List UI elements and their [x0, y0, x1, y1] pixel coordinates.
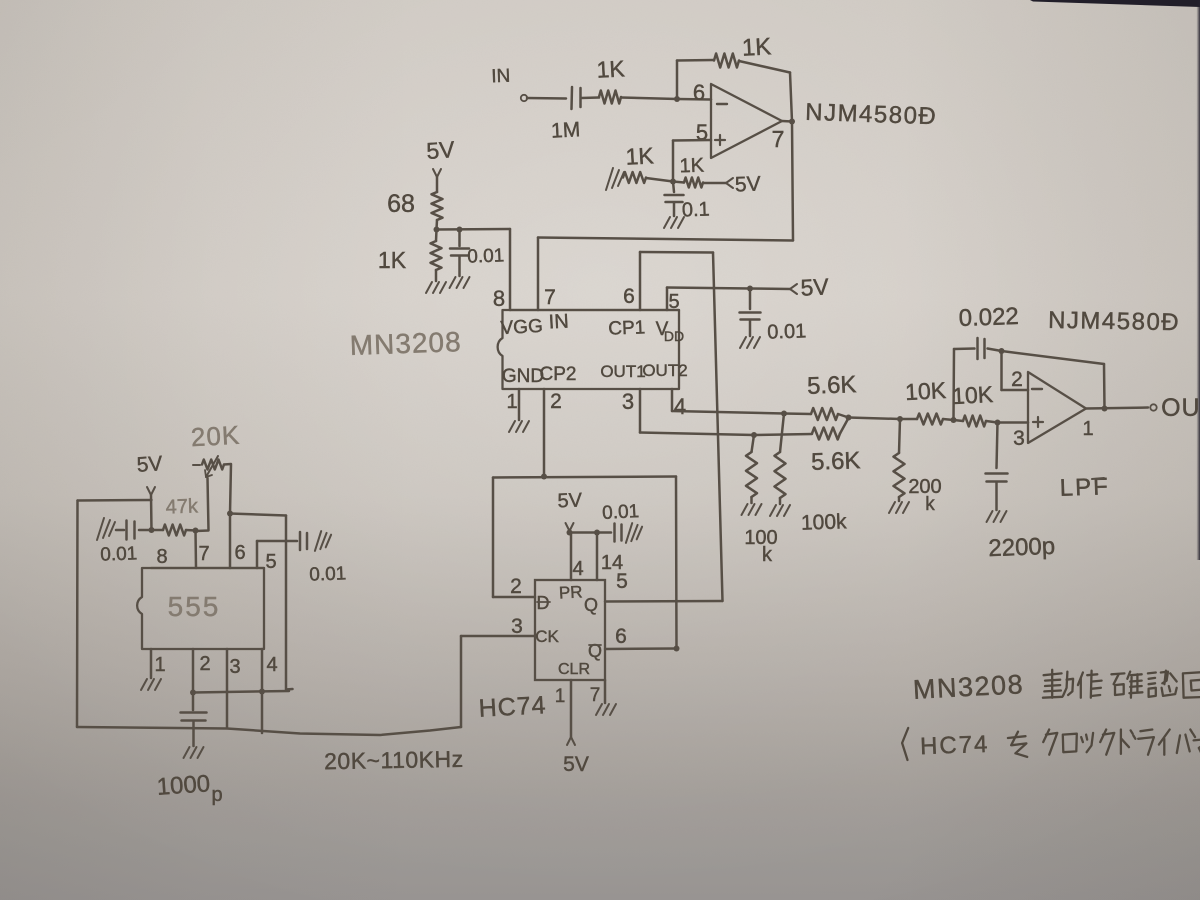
- svg-text:1000: 1000: [156, 770, 211, 801]
- label C4 0.01: [767, 320, 807, 343]
- overbar on F of LPF: [1092, 478, 1104, 479]
- wire CK input: [461, 635, 535, 638]
- svg-text:5: 5: [265, 551, 276, 573]
- wire feedback top right: [739, 61, 790, 73]
- svg-text:10K: 10K: [904, 377, 947, 405]
- U2 pin name OUT2: [642, 361, 687, 380]
- label C3 0.01: [467, 245, 505, 267]
- svg-text:4: 4: [266, 654, 277, 676]
- svg-text:4: 4: [572, 558, 583, 580]
- ground under C3: [450, 277, 470, 288]
- arrow 5V supply U2: [790, 284, 797, 294]
- svg-text:OUT1: OUT1: [600, 362, 645, 381]
- resistor R14 47k: [163, 525, 186, 536]
- caption to: [1199, 731, 1200, 757]
- node VDD junction: [747, 286, 753, 292]
- node F junction: [951, 417, 957, 423]
- wire VR1 right down: [224, 464, 231, 514]
- op-amp U3 pin3 label: [1013, 427, 1025, 450]
- U5 pin number 5: [265, 551, 276, 573]
- label R9 100 k: [744, 527, 777, 566]
- hatch after C7: [626, 523, 642, 543]
- node OUT2 junction: [781, 411, 787, 417]
- svg-text:NJM4580Đ: NJM4580Đ: [1048, 307, 1180, 336]
- wire pin2 into op-amp: [1002, 389, 1029, 392]
- capacitor C5 0.022: [978, 338, 985, 359]
- svg-text:1K: 1K: [596, 55, 626, 82]
- label C8 0.01: [100, 543, 138, 565]
- label C10 1000p: [156, 770, 223, 806]
- arrow 5V supply U1: [726, 178, 733, 188]
- svg-text:0.01: 0.01: [100, 543, 138, 565]
- wire R8 to node D: [840, 418, 849, 434]
- svg-text:5V: 5V: [563, 753, 589, 776]
- wire node G down to C6: [997, 423, 998, 469]
- U4 pin name D with bar: [537, 593, 551, 613]
- wire U4 pin1 CLR down: [570, 680, 573, 737]
- svg-text:7: 7: [590, 685, 601, 706]
- resistor R8 5.6K lower: [812, 428, 840, 440]
- U4 pin number 14: [601, 552, 623, 574]
- svg-text:2: 2: [510, 575, 522, 598]
- label R12 10K: [951, 381, 994, 409]
- U2 pin name OUT1: [600, 362, 645, 381]
- label 5V at 555: [136, 452, 163, 477]
- wire node VR1 right: [230, 514, 286, 516]
- svg-text:7: 7: [544, 286, 556, 309]
- ground U2 pin1: [509, 421, 529, 432]
- wire feedback down to output: [1103, 364, 1106, 409]
- U4 pin number 7: [590, 685, 601, 706]
- svg-text:8: 8: [156, 546, 167, 568]
- ground under C6: [987, 511, 1007, 522]
- node pin4 junction: [259, 689, 265, 695]
- svg-text:1: 1: [555, 686, 566, 707]
- U4 pin name PR: [558, 582, 583, 602]
- svg-text:CK: CK: [535, 627, 559, 646]
- node pin2 junction: [190, 690, 196, 696]
- svg-text:HC74: HC74: [920, 731, 990, 760]
- svg-text:1: 1: [154, 654, 165, 676]
- svg-text:7: 7: [772, 126, 785, 152]
- potentiometer VR1 20K: [193, 460, 224, 470]
- resistor R7 5.6K upper: [811, 408, 838, 420]
- wire U4 pin14 down: [596, 533, 599, 581]
- wire CP1 top: [640, 251, 713, 254]
- label LPF: [1059, 473, 1110, 502]
- wire U5 pin4 down: [261, 649, 264, 733]
- wire VDD to C4: [749, 289, 752, 310]
- svg-text:3: 3: [511, 615, 523, 638]
- ground under R9: [742, 504, 762, 515]
- node CP2 junction: [541, 474, 547, 480]
- svg-text:6: 6: [693, 80, 705, 105]
- ground U5 pin1: [141, 679, 161, 690]
- label R14 47k: [165, 495, 199, 518]
- IC U4 HC74 body: [535, 580, 605, 680]
- resistor R6 1K: [431, 241, 442, 270]
- svg-text:k: k: [925, 494, 935, 515]
- U2 pin number 6: [623, 285, 635, 308]
- label C9 0.01: [309, 563, 347, 585]
- caption kanji saku: [1078, 671, 1102, 698]
- caption katakana ba: [1177, 730, 1195, 754]
- svg-text:CP2: CP2: [540, 364, 577, 385]
- wire U5 pin3 down: [226, 649, 229, 728]
- U4 pin name CLR: [558, 661, 590, 678]
- U5 pin number 3: [229, 656, 240, 678]
- svg-text:MN3208: MN3208: [349, 326, 462, 361]
- wire OUT1 to R8: [754, 434, 812, 435]
- U4 pin number 4: [572, 558, 583, 580]
- wire U2 pin4 OUT2 down: [671, 389, 674, 411]
- wire R5 to node C: [435, 220, 438, 229]
- ground under C10: [184, 747, 204, 758]
- wire VDD to 5V: [667, 288, 750, 289]
- wire D input: [493, 596, 535, 599]
- svg-text:2: 2: [199, 653, 210, 675]
- wire R3 to node B: [646, 178, 673, 182]
- arrow 5V down U4: [566, 523, 574, 531]
- label 5V at R4: [735, 173, 761, 197]
- arrow 5V up U4 pin1: [567, 737, 575, 745]
- label R11 10K: [904, 377, 947, 405]
- wire U1 output down: [792, 122, 793, 241]
- caption paren: [902, 728, 908, 760]
- svg-text:555: 555: [168, 591, 221, 622]
- svg-text:2: 2: [1011, 368, 1023, 391]
- svg-text:1K: 1K: [378, 247, 407, 273]
- svg-text:68: 68: [387, 190, 415, 218]
- wire VR1 wiper down: [196, 478, 209, 531]
- node VR1 junction: [227, 511, 233, 517]
- wire U2 pin1 GND: [518, 389, 521, 420]
- wire C10 to ground: [192, 721, 195, 746]
- svg-text:0.01: 0.01: [467, 245, 505, 267]
- node A junction: [674, 96, 680, 102]
- caption katakana ku: [1100, 730, 1114, 755]
- caption kanji nin: [1148, 671, 1177, 697]
- label U2 MN3208: [349, 326, 462, 361]
- ground under C2: [664, 217, 684, 228]
- op-amp U3 NJM4580D triangle: [1028, 372, 1086, 443]
- U4 pin name Qbar: [588, 641, 602, 661]
- U2 pin number 7: [544, 286, 556, 309]
- resistor R12 10K: [963, 416, 986, 427]
- wire R6 to ground: [435, 270, 438, 281]
- resistor R10 100k: [775, 414, 786, 505]
- svg-text:5.6K: 5.6K: [811, 447, 861, 476]
- node U1 output junction: [789, 119, 795, 125]
- wire node E to R11: [900, 418, 917, 421]
- svg-text:Q: Q: [588, 641, 602, 661]
- wire U2 pin6 CP1 up: [639, 252, 642, 310]
- label 5V filter: [425, 136, 456, 164]
- node I junction: [149, 527, 155, 533]
- resistor R13 200K: [894, 419, 905, 501]
- U2 pin number 3: [622, 389, 634, 414]
- wire 555 pin7 up: [194, 531, 197, 569]
- U4 pin number 2: [510, 575, 522, 598]
- wire U5 pin2 down: [192, 649, 195, 693]
- wire CP2 loop top: [493, 477, 676, 478]
- svg-text:0.01: 0.01: [602, 501, 640, 524]
- wire node H to feedback corner: [1002, 351, 1105, 364]
- op-amp U1 minus sign: [717, 103, 727, 105]
- U5 pin number 2: [199, 653, 210, 675]
- label R2 1K: [741, 33, 772, 61]
- IC U2 MN3208 body: [498, 310, 679, 389]
- wire node B to R4: [673, 182, 684, 183]
- op-amp U3 minus sign: [1032, 388, 1042, 390]
- arrow 5V down 555: [147, 487, 155, 495]
- svg-text:MN3208: MN3208: [912, 669, 1024, 705]
- label 1M: [550, 118, 580, 142]
- ground under C4: [740, 337, 760, 348]
- wire R4 to 5V: [703, 182, 726, 185]
- node Qbar junction: [674, 646, 680, 652]
- U5 pin number 6: [234, 542, 245, 564]
- svg-text:OUT2: OUT2: [642, 361, 687, 380]
- caption kanji kai: [1183, 672, 1200, 698]
- svg-text:6: 6: [615, 625, 627, 648]
- label 5V at U2: [800, 273, 830, 300]
- capacitor C2 0.1: [665, 195, 684, 202]
- wire U2 pin3 OUT1 down: [639, 389, 642, 433]
- node OUT1 junction: [751, 432, 757, 438]
- wire U2 pin5 VDD: [666, 288, 669, 311]
- wire right down to pin2 line: [286, 516, 293, 690]
- U4 pin number 5: [616, 570, 628, 593]
- wire R7 to node D: [838, 414, 849, 418]
- wire CP1 right down to Q: [713, 253, 723, 602]
- svg-text:2200p: 2200p: [988, 533, 1056, 562]
- capacitor C10 1000p: [181, 713, 207, 721]
- wire U3 output: [1086, 408, 1148, 409]
- wire clock riser: [460, 636, 463, 727]
- node pin14 junction: [594, 530, 600, 536]
- U2 pin number 8: [493, 286, 505, 311]
- node U3 output junction: [1102, 406, 1108, 412]
- wire feedback down to output: [790, 73, 792, 122]
- capacitor C6 2200p: [986, 474, 1008, 482]
- wire U1 output to MN3208 IN: [538, 238, 793, 241]
- svg-text:1K: 1K: [741, 33, 772, 61]
- ground under R10: [770, 505, 790, 516]
- wire C2 to ground: [673, 203, 676, 216]
- svg-text:1: 1: [1082, 418, 1093, 440]
- op-amp U1 plus sign: [715, 135, 725, 145]
- svg-text:OUT: OUT: [1161, 394, 1200, 422]
- U2 pin name VDD: [656, 319, 684, 344]
- label VR1 20K: [190, 420, 241, 453]
- label R4 1K: [679, 155, 705, 178]
- svg-text:CP1: CP1: [608, 317, 646, 339]
- node B junction: [670, 179, 676, 185]
- wire node G to op-amp pin3: [998, 421, 1029, 424]
- svg-text:1K: 1K: [625, 142, 655, 169]
- wire node H down to pin2: [1000, 351, 1003, 390]
- op-amp U3 plus sign: [1033, 417, 1043, 427]
- wire U1 output: [782, 120, 792, 123]
- label C2 0.1: [682, 199, 711, 222]
- photo dark table edge right strip: [1197, 0, 1200, 560]
- label C6 2200p: [988, 533, 1056, 562]
- caption katakana ku: [1043, 730, 1057, 755]
- label clock 20K~110KHz: [324, 746, 464, 774]
- svg-text:5V: 5V: [800, 273, 830, 300]
- svg-text:DD: DD: [664, 328, 684, 344]
- caption katakana i: [1159, 730, 1170, 755]
- wire R1 to node A: [621, 98, 677, 100]
- resistor R4 1K: [684, 178, 703, 188]
- U4 pin number 3: [511, 615, 523, 638]
- label U4 HC74: [478, 691, 547, 723]
- svg-text:14: 14: [601, 552, 623, 574]
- caption katakana do: [1121, 730, 1136, 754]
- svg-text:20K: 20K: [190, 420, 241, 453]
- svg-text:VGG: VGG: [500, 316, 543, 339]
- svg-text:IN: IN: [491, 66, 511, 88]
- label R3 1K: [625, 142, 655, 169]
- svg-text:1M: 1M: [550, 118, 580, 142]
- svg-text:Q: Q: [584, 595, 598, 615]
- svg-text:10K: 10K: [951, 381, 994, 409]
- label R13 200 k: [908, 476, 941, 515]
- wire U2 pin7 IN: [537, 238, 540, 311]
- wire R14 to node J: [186, 529, 196, 532]
- svg-text:k: k: [762, 544, 773, 566]
- capacitor C3 0.01: [450, 249, 469, 256]
- svg-text:20K~110KHz: 20K~110KHz: [324, 746, 464, 774]
- op-amp U3 pin1 label: [1082, 418, 1093, 440]
- capacitor C7 0.01: [615, 524, 622, 542]
- resistor R1 1K: [599, 91, 621, 104]
- wire OUT2 right: [672, 411, 784, 414]
- svg-text:IN: IN: [548, 310, 569, 333]
- caption kanji kaku: [1111, 672, 1142, 698]
- op-amp U1 pin5 label: [696, 120, 708, 145]
- label 5V at U4: [557, 490, 583, 513]
- wire clock line 555 to HC74: [77, 727, 461, 735]
- label U5 555: [168, 591, 221, 622]
- label C5 0.022: [958, 303, 1019, 332]
- wire OUT2 to R7: [784, 412, 811, 415]
- caption katakana ttu: [1081, 733, 1093, 752]
- node IN input label: [491, 66, 511, 88]
- wire pin2 right: [193, 691, 289, 693]
- wire to 5V arrow: [750, 287, 790, 290]
- svg-text:47k: 47k: [165, 495, 199, 518]
- svg-text:3: 3: [1013, 427, 1025, 450]
- caption MN3208 text: [912, 669, 1024, 705]
- VR1 wiper arrow: [205, 456, 218, 477]
- node D junction: [846, 415, 852, 421]
- wire C5 left lead: [954, 347, 975, 350]
- wire C6 to ground: [995, 482, 998, 510]
- svg-text:HC74: HC74: [478, 691, 547, 723]
- wire node I to C8: [139, 529, 152, 532]
- wire node pin2 to C10: [192, 693, 195, 711]
- wire C5 to node H: [988, 349, 1002, 352]
- node H junction: [999, 348, 1005, 354]
- svg-text:NJM4580Đ: NJM4580Đ: [805, 99, 938, 131]
- input terminal: [521, 95, 527, 101]
- caption katakana ro: [1063, 734, 1077, 753]
- wire C4 to ground: [749, 320, 752, 336]
- arrow 5V down: [433, 169, 441, 177]
- capacitor C1 input: [572, 87, 581, 109]
- U4 pin number 1: [555, 686, 566, 707]
- svg-text:100: 100: [744, 527, 777, 549]
- U4 pin name CK: [535, 627, 559, 646]
- svg-text:CLR: CLR: [558, 661, 590, 678]
- U2 pin name CP2: [540, 364, 577, 385]
- resistor R11 10K: [917, 414, 943, 425]
- U2 pin number 5: [668, 291, 679, 313]
- U2 pin name IN: [548, 310, 569, 333]
- node G junction: [995, 420, 1001, 426]
- wire node to C3: [458, 230, 461, 247]
- hatch terminal left of R3: [606, 168, 624, 190]
- op-amp U3 pin2 label: [1011, 368, 1023, 391]
- resistor R9 100k: [746, 435, 757, 503]
- wire 5V down to node I: [150, 495, 153, 530]
- svg-text:5V: 5V: [735, 173, 761, 197]
- wire left loop down: [76, 501, 79, 728]
- svg-text:1K: 1K: [679, 155, 705, 178]
- wire node C right: [437, 228, 511, 231]
- svg-text:100k: 100k: [801, 510, 848, 535]
- svg-text:p: p: [211, 784, 222, 806]
- svg-text:D: D: [537, 593, 550, 613]
- node J junction: [193, 528, 199, 534]
- wire 5V to C7: [597, 531, 611, 534]
- U2 pin number 1: [506, 391, 517, 413]
- svg-text:0.01: 0.01: [309, 563, 347, 585]
- label R7 5.6K: [807, 371, 857, 400]
- wire C1 to R1: [581, 96, 599, 99]
- U5 pin number 4: [266, 654, 277, 676]
- label R8 5.6K: [811, 447, 861, 476]
- svg-text:6: 6: [234, 542, 245, 564]
- label R10 100k: [801, 510, 848, 535]
- wire node B to C2: [673, 182, 674, 193]
- wire Qbar to loop: [605, 647, 677, 650]
- U2 pin name CP1: [608, 317, 646, 339]
- wire 555 pin5 up: [257, 541, 297, 568]
- op-amp U1 pin7 label: [772, 126, 785, 152]
- svg-text:0.022: 0.022: [958, 303, 1019, 332]
- wire U4 pin7 down: [604, 680, 607, 703]
- svg-text:3: 3: [622, 389, 634, 414]
- wire 555 pin6 up: [229, 514, 232, 569]
- capacitor C9 0.01: [300, 532, 307, 550]
- svg-text:8: 8: [493, 286, 505, 311]
- U2 pin name VGG: [500, 316, 543, 339]
- svg-text:5V: 5V: [557, 490, 583, 513]
- wire C3 to ground: [458, 256, 461, 276]
- wire OUT1 right: [640, 433, 754, 436]
- wire C8 left lead: [116, 529, 124, 532]
- label 5V under U4: [563, 753, 589, 776]
- label U3 NJM4580D: [1048, 307, 1180, 336]
- wire Q to CP1 loop: [605, 600, 723, 603]
- resistor R3 1K: [623, 172, 646, 183]
- svg-text:4: 4: [674, 394, 686, 419]
- svg-text:5V: 5V: [425, 136, 456, 164]
- U4 pin name Q: [584, 595, 598, 615]
